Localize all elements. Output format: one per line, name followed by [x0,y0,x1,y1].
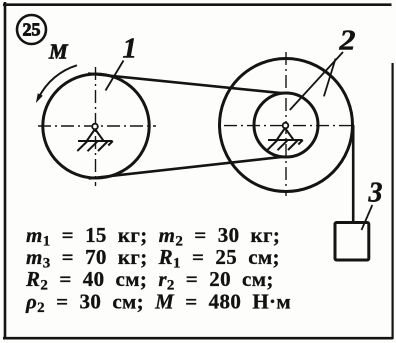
pivot pin pulley 1 [92,124,98,130]
svg-text:3: 3 [368,178,383,209]
given data text [25,223,291,316]
label 3 [368,178,383,209]
svg-text:M: M [48,40,69,64]
support hatching pulley 1 [77,141,113,151]
centerline horizontal pulley 2 [224,125,351,127]
leader line label 1 [106,61,124,91]
support base line pulley 1 [78,140,113,142]
rope [352,125,355,224]
svg-text:1: 1 [123,33,138,65]
pulley 2 inner hub [254,93,318,157]
support triangle pulley 1 [87,129,104,141]
support hatching pulley 2 [267,140,303,150]
support base line pulley 2 [268,139,303,141]
leader line label 3 [362,205,373,230]
svg-text:ρ2 = 30 см; M = 480 Н·м: ρ2 = 30 см; M = 480 Н·м [25,290,291,317]
svg-text:2: 2 [338,26,355,57]
svg-text:25: 25 [23,20,41,40]
centerline vertical pulley 2 [285,52,287,196]
leader lines label 2 [290,52,343,110]
pivot pin pulley 2 [283,123,289,129]
torque label M [48,40,69,64]
torque arrow (counterclockwise arc) [36,65,77,103]
belt top run [88,74,282,94]
centerline vertical pulley 1 [95,67,97,186]
centerline horizontal pulley 1 [38,125,156,127]
label 2 [338,26,355,57]
belt bottom run [89,157,283,179]
problem number badge 25 [17,15,46,44]
support triangle pulley 2 [277,128,294,140]
pulley 2 outer rim [220,59,353,192]
mass 3 hanging block [335,223,369,261]
label 1 [123,33,138,65]
pulley 1 disc [43,74,149,178]
